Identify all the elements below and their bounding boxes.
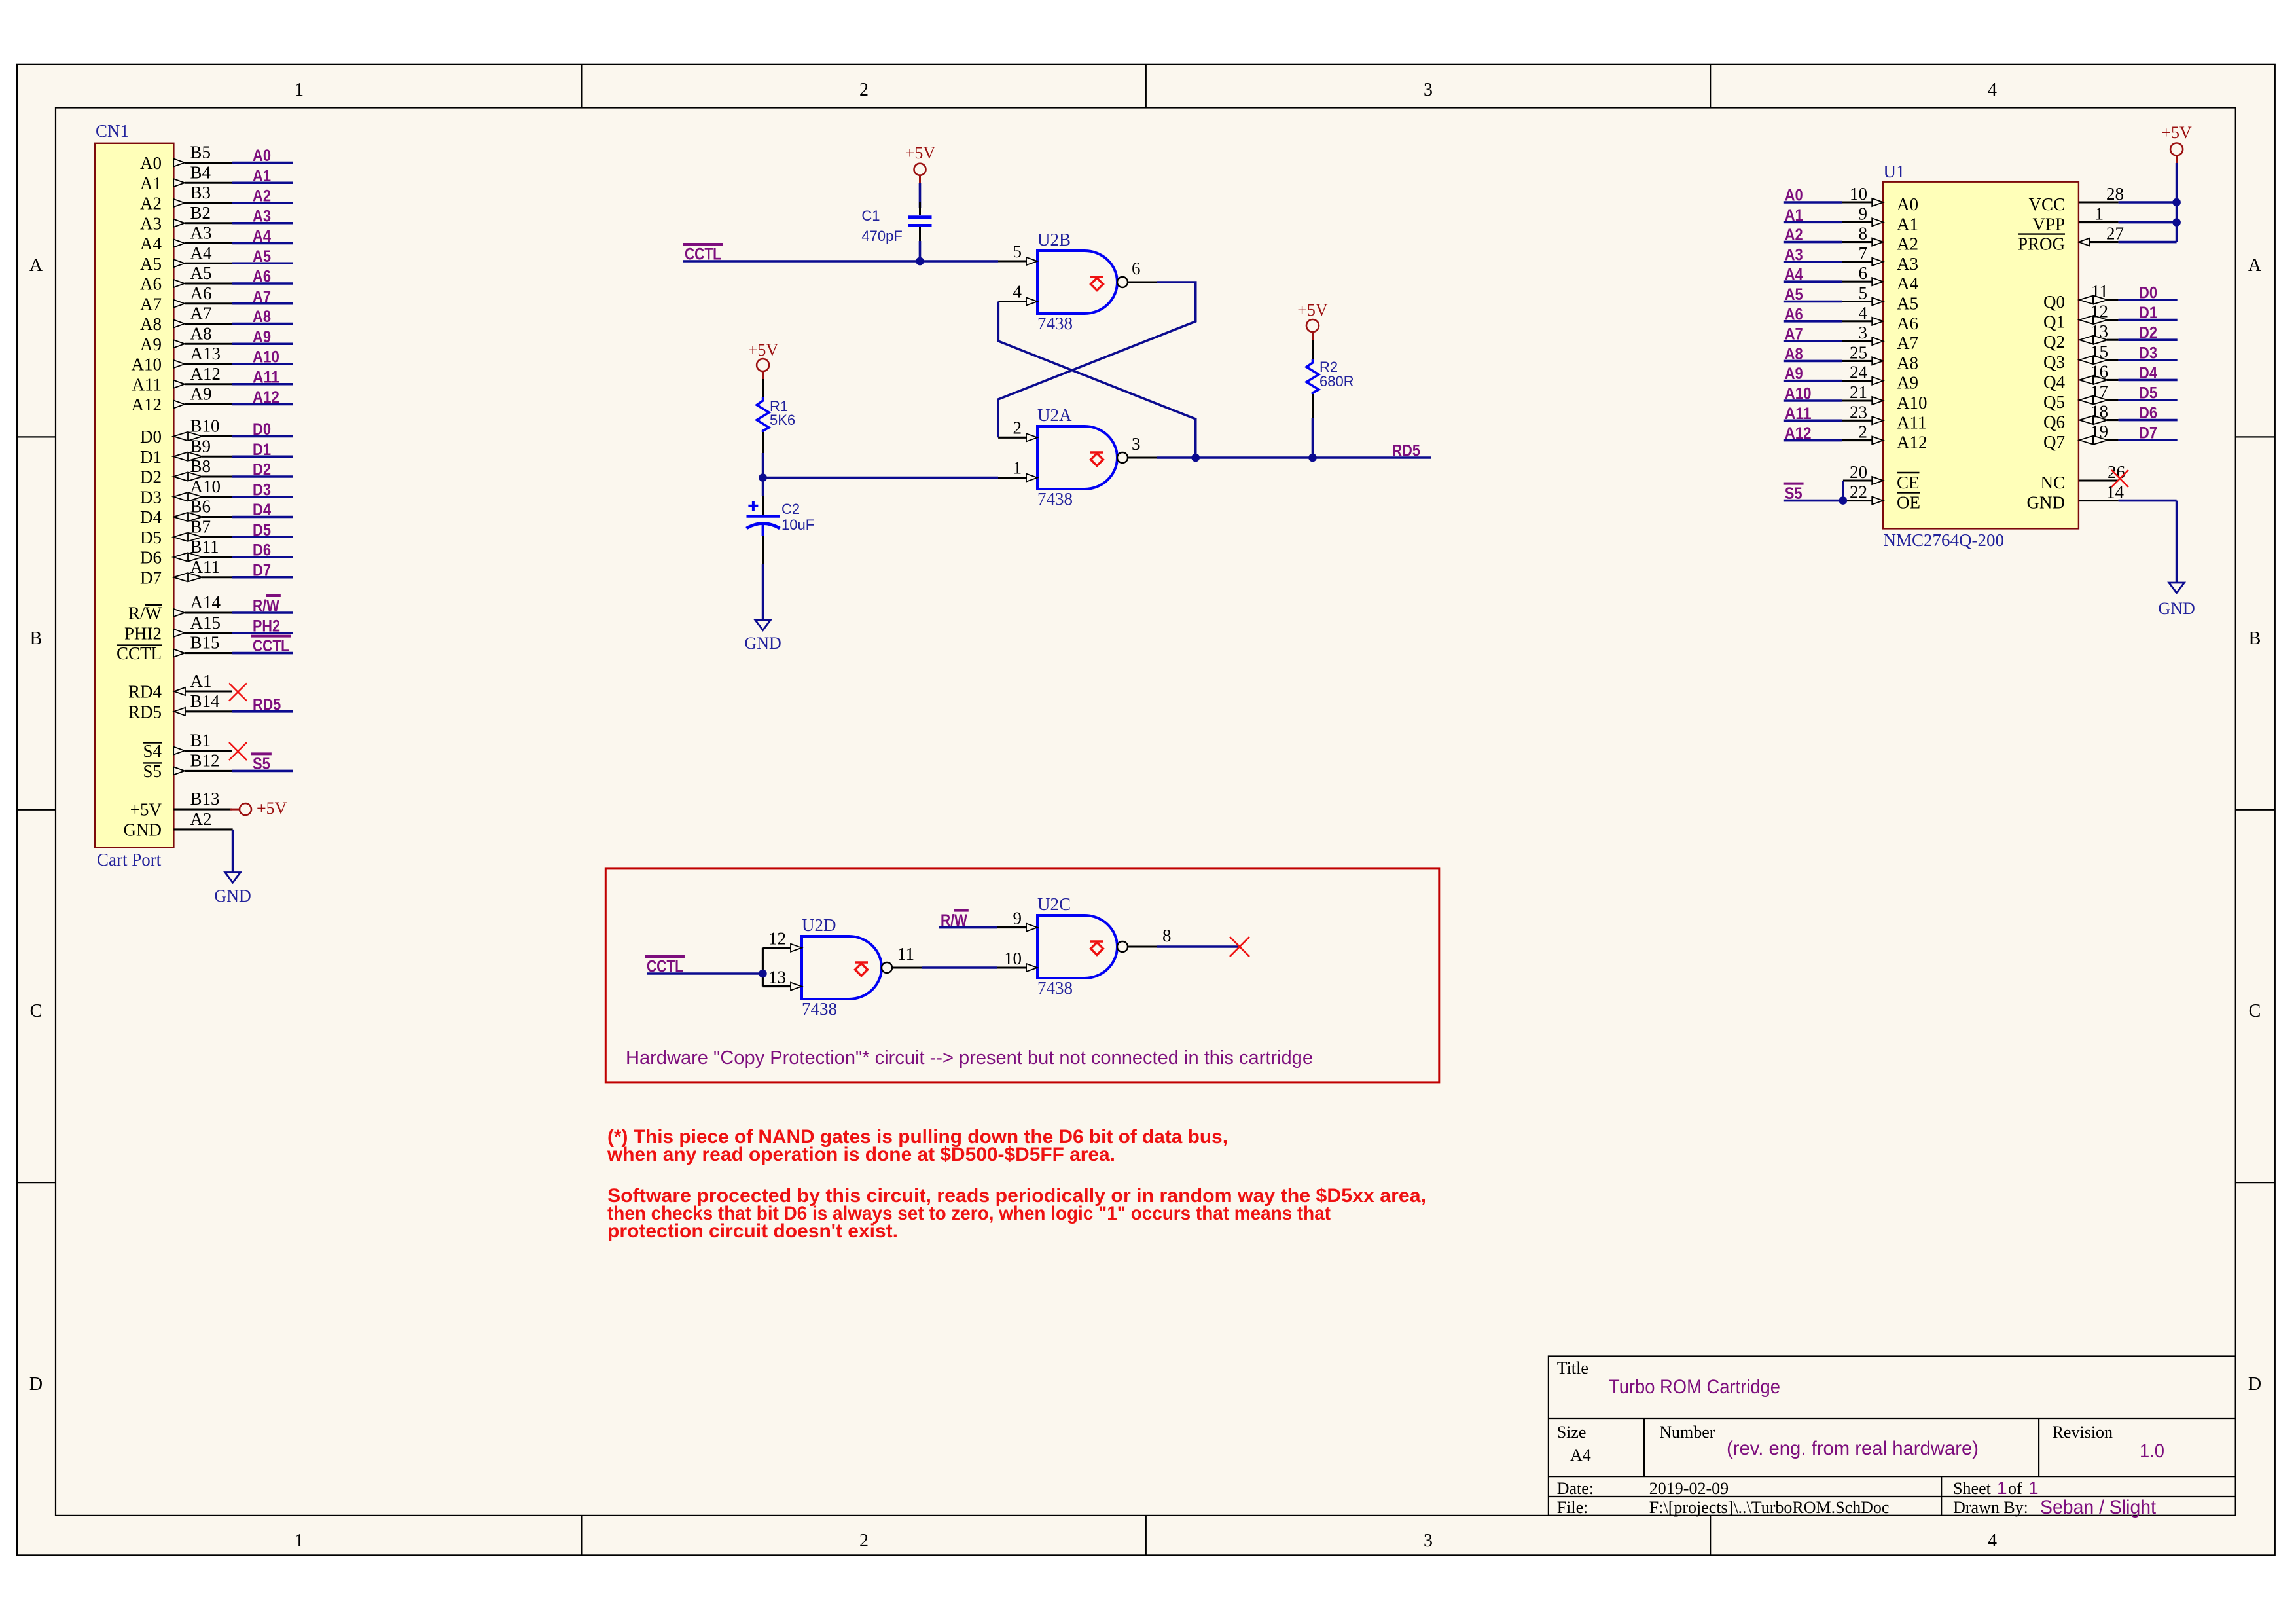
svg-text:8: 8 — [1162, 926, 1172, 945]
junction VPP — [2172, 218, 2181, 227]
svg-text:Q2: Q2 — [2043, 332, 2065, 352]
CN1 pin A4 (A5) — [140, 243, 232, 274]
svg-text:D2: D2 — [253, 461, 271, 479]
svg-text:GND: GND — [2158, 599, 2195, 618]
svg-text:A0: A0 — [1785, 187, 1803, 205]
svg-text:680R: 680R — [1319, 373, 1354, 390]
no-connect X on S4 — [229, 742, 247, 760]
junction S5/CE/OE — [1839, 496, 1848, 505]
svg-text:D5: D5 — [2139, 384, 2157, 403]
svg-text:S4: S4 — [143, 741, 162, 761]
svg-text:A12: A12 — [1897, 433, 1928, 452]
svg-text:CCTL: CCTL — [253, 637, 289, 655]
svg-text:2: 2 — [1859, 422, 1868, 442]
svg-text:U2A: U2A — [1037, 405, 1072, 425]
svg-text:20: 20 — [1850, 462, 1867, 482]
svg-text:A3: A3 — [190, 223, 212, 243]
wire net D5 — [232, 521, 293, 539]
svg-text:22: 22 — [1850, 483, 1867, 502]
CN1 pin B6 (D4) — [140, 497, 232, 528]
svg-text:+5V: +5V — [905, 143, 936, 162]
power +5V above U1 — [2161, 123, 2192, 163]
svg-text:A5: A5 — [190, 263, 212, 283]
svg-text:1: 1 — [1013, 458, 1022, 478]
U2A pin 3 output — [1128, 434, 1157, 458]
U1 pin 26 (NC) — [2040, 462, 2125, 492]
svg-text:PH2: PH2 — [253, 617, 280, 635]
svg-text:D6: D6 — [2139, 404, 2157, 422]
svg-text:Cart Port: Cart Port — [97, 850, 162, 869]
svg-text:D5: D5 — [140, 528, 162, 547]
svg-text:3: 3 — [1424, 80, 1433, 100]
junction R1/C2/pin1 — [759, 473, 767, 482]
net label CCTL (protection) — [645, 957, 685, 976]
wire net D7 — [232, 561, 293, 579]
svg-text:8: 8 — [1859, 224, 1868, 244]
svg-text:14: 14 — [2106, 483, 2125, 502]
U1 pin 23 (A11) — [1842, 402, 1927, 432]
U1 pin 25 (A8) — [1842, 342, 1918, 373]
junction R2/RD5 — [1308, 454, 1317, 462]
wire C2 bottom — [762, 564, 764, 620]
CN1 pin A1 (RD4) — [128, 671, 232, 702]
U2D pin 11 output — [892, 944, 922, 968]
svg-text:A5: A5 — [253, 247, 271, 266]
NAND gate U2B 7438 — [1037, 230, 1128, 333]
connector CN1 body — [95, 143, 173, 848]
svg-text:7438: 7438 — [1037, 978, 1073, 998]
part number NMC2764Q-200 — [1884, 530, 2005, 550]
svg-text:D0: D0 — [253, 420, 271, 439]
designator U1 — [1884, 162, 1905, 181]
wire net A7 — [232, 287, 293, 306]
resistor R1 5K6 — [757, 379, 795, 453]
svg-text:A8: A8 — [190, 323, 212, 343]
svg-text:VCC: VCC — [2028, 194, 2065, 214]
U1 pin 8 (A2) — [1842, 224, 1918, 254]
junction U2A output — [1191, 454, 1200, 462]
wire net D4 — [232, 501, 293, 519]
NAND gate U2D 7438 — [802, 915, 892, 1019]
svg-text:A5: A5 — [1897, 294, 1918, 314]
svg-text:CE: CE — [1897, 473, 1920, 492]
svg-text:Turbo ROM Cartridge: Turbo ROM Cartridge — [1609, 1376, 1780, 1398]
wire net D4 from U1 — [2119, 364, 2178, 382]
svg-text:U2B: U2B — [1037, 230, 1071, 249]
svg-text:NC: NC — [2040, 473, 2065, 492]
svg-text:A3: A3 — [1785, 246, 1803, 264]
U2A pin 1 — [998, 458, 1037, 482]
U2D input tie wire — [762, 948, 764, 987]
svg-text:D4: D4 — [2139, 364, 2157, 382]
U2B pin 4 — [998, 282, 1037, 306]
wire net A3 to U1 — [1784, 246, 1842, 264]
U2B pin 6 output — [1128, 259, 1157, 282]
svg-text:VPP: VPP — [2032, 215, 2065, 234]
svg-text:7438: 7438 — [802, 999, 837, 1019]
U1 pin 15 (Q3) — [2043, 342, 2119, 372]
svg-text:A2: A2 — [253, 187, 271, 206]
ground GND (CN1) — [214, 873, 251, 906]
svg-text:Date:: Date: — [1557, 1479, 1594, 1498]
svg-text:B12: B12 — [190, 750, 220, 770]
svg-text:B4: B4 — [190, 162, 211, 182]
CN1 pin B7 (D5) — [140, 517, 232, 547]
wire net A9 — [232, 328, 293, 346]
svg-text:A9: A9 — [253, 328, 271, 346]
svg-text:A: A — [29, 255, 43, 276]
U1 pin 14 (GND) — [2027, 483, 2125, 513]
U1 pin 21 (A10) — [1842, 382, 1928, 412]
CN1 pin B14 (RD5) — [128, 691, 232, 722]
CN1 pin B2 (A3) — [140, 203, 232, 234]
svg-text:5K6: 5K6 — [770, 412, 795, 428]
svg-text:A11: A11 — [1897, 412, 1927, 432]
svg-text:A4: A4 — [140, 234, 162, 253]
svg-text:Q5: Q5 — [2043, 392, 2065, 412]
no-connect X on U2C output — [1230, 937, 1249, 957]
svg-text:Hardware "Copy Protection"* ci: Hardware "Copy Protection"* circuit --> … — [626, 1048, 1313, 1068]
wire net D7 from U1 — [2119, 424, 2178, 443]
CN1 pin B9 (D1) — [140, 436, 232, 467]
U1 pin 2 (A12) — [1842, 422, 1928, 452]
wire R/W to U2C pin 9 — [939, 926, 997, 929]
svg-text:27: 27 — [2106, 224, 2124, 244]
svg-text:A4: A4 — [1785, 266, 1803, 284]
wire net A6 to U1 — [1784, 305, 1842, 323]
U1 pin 28 (VCC) — [2028, 184, 2124, 214]
no-connect X on NC — [2111, 470, 2128, 487]
svg-text:3: 3 — [1132, 434, 1141, 454]
U1 pin 18 (Q6) — [2043, 402, 2119, 432]
svg-text:CN1: CN1 — [96, 121, 129, 141]
svg-text:A7: A7 — [140, 294, 162, 314]
svg-text:D1: D1 — [140, 447, 162, 467]
CN1 pin A8 (A9) — [140, 323, 232, 354]
svg-text:Title: Title — [1557, 1359, 1588, 1377]
wire net D6 — [232, 541, 293, 560]
svg-text:A6: A6 — [140, 274, 162, 294]
svg-text:24: 24 — [1850, 363, 1868, 382]
wire net A0 to U1 — [1784, 187, 1842, 205]
wire GND down — [2119, 501, 2177, 583]
wire VPP to +5V — [2119, 221, 2177, 224]
svg-text:9: 9 — [1013, 909, 1022, 928]
CN1 pin A9 (A12) — [132, 384, 232, 415]
wire net A8 — [232, 308, 293, 326]
U1 pin 11 (Q0) — [2043, 282, 2119, 312]
svg-text:4: 4 — [1988, 1531, 1997, 1551]
svg-text:9: 9 — [1859, 204, 1868, 223]
svg-text:2: 2 — [859, 80, 869, 100]
svg-text:10: 10 — [1850, 184, 1867, 204]
svg-text:26: 26 — [2108, 462, 2125, 482]
wire net A5 to U1 — [1784, 285, 1842, 304]
svg-text:A9: A9 — [1785, 365, 1803, 383]
svg-text:Revision: Revision — [2053, 1423, 2113, 1442]
svg-text:A11: A11 — [253, 368, 279, 386]
svg-text:B10: B10 — [190, 416, 220, 436]
wire net A12 — [232, 388, 293, 407]
svg-text:D1: D1 — [2139, 304, 2157, 322]
svg-text:1.0: 1.0 — [2140, 1440, 2164, 1462]
capacitor C1 470pF — [861, 202, 931, 244]
wire net RD5 output — [1196, 442, 1431, 460]
U2D pin 13 — [762, 968, 802, 991]
svg-text:D7: D7 — [253, 561, 271, 579]
svg-text:A5: A5 — [140, 254, 162, 274]
wire net D2 — [232, 461, 293, 479]
wire net A11 to U1 — [1784, 405, 1842, 423]
CN1 pin B15 (CCTL) — [117, 633, 232, 664]
svg-text:A0: A0 — [1897, 194, 1918, 214]
wire net A6 — [232, 268, 293, 286]
wire net D0 — [232, 420, 293, 439]
svg-text:Sheet: Sheet — [1953, 1479, 1992, 1498]
svg-text:A12: A12 — [132, 395, 162, 414]
svg-text:Q3: Q3 — [2043, 352, 2065, 372]
CN1 pin A2 (GND) — [124, 809, 232, 840]
U2B pin 5 — [998, 242, 1037, 265]
svg-text:D0: D0 — [2139, 284, 2157, 302]
U1 pin 24 (A9) — [1842, 363, 1918, 393]
U1 pin 10 (A0) — [1842, 184, 1918, 214]
svg-text:B13: B13 — [190, 789, 220, 809]
CN1 pin A15 (PHI2) — [124, 613, 232, 644]
ground GND (C2) — [744, 620, 781, 653]
CN1 pin A13 (A10) — [132, 344, 232, 374]
svg-text:A10: A10 — [1897, 393, 1928, 412]
wire net A2 to U1 — [1784, 226, 1842, 244]
power +5V above C1 — [905, 143, 936, 183]
wire net D6 from U1 — [2119, 404, 2178, 422]
svg-text:A15: A15 — [190, 613, 221, 632]
svg-text:A1: A1 — [1785, 206, 1803, 225]
svg-text:A10: A10 — [132, 355, 162, 374]
svg-text:NMC2764Q-200: NMC2764Q-200 — [1884, 530, 2005, 550]
CN1 pin B5 (A0) — [140, 143, 232, 173]
svg-text:B3: B3 — [190, 183, 211, 202]
svg-text:A3: A3 — [1897, 254, 1918, 274]
svg-text:B11: B11 — [190, 537, 219, 556]
svg-text:File:: File: — [1557, 1498, 1588, 1517]
svg-text:RD4: RD4 — [128, 682, 162, 702]
svg-text:A7: A7 — [253, 287, 271, 306]
svg-text:Q6: Q6 — [2043, 412, 2065, 432]
svg-text:B15: B15 — [190, 633, 220, 653]
wire net A3 — [232, 207, 293, 225]
svg-text:Q0: Q0 — [2043, 292, 2065, 312]
svg-text:+5V: +5V — [1297, 301, 1328, 319]
svg-text:A12: A12 — [190, 364, 221, 384]
svg-text:Seban / Slight: Seban / Slight — [2040, 1497, 2157, 1518]
svg-text:U2D: U2D — [802, 915, 836, 935]
wire net A12 to U1 — [1784, 424, 1842, 443]
U1 pin 9 (A1) — [1842, 204, 1918, 234]
svg-text:A6: A6 — [253, 268, 271, 286]
svg-text:5: 5 — [1013, 242, 1022, 261]
wire U2B pin4 to U2A out — [998, 302, 1195, 458]
red note text block — [607, 1126, 1426, 1242]
svg-text:A6: A6 — [1897, 314, 1918, 333]
junction U2D inputs — [759, 970, 767, 978]
svg-text:A11: A11 — [190, 557, 221, 577]
svg-text:D2: D2 — [140, 467, 162, 487]
net label CCTL (latch input) — [683, 244, 723, 264]
U1 pin 16 (Q4) — [2043, 361, 2119, 392]
svg-text:D: D — [29, 1374, 43, 1395]
svg-text:2019-02-09: 2019-02-09 — [1649, 1479, 1729, 1498]
U1 pin 5 (A5) — [1842, 283, 1918, 314]
wire net A0 — [232, 147, 293, 165]
power +5V above R1 — [748, 340, 779, 379]
svg-text:of: of — [2008, 1479, 2022, 1498]
svg-text:A7: A7 — [1897, 333, 1918, 353]
svg-text:GND: GND — [214, 886, 251, 905]
NAND gate U2C 7438 — [1037, 894, 1128, 998]
IC U1 body — [1883, 182, 2079, 529]
svg-text:21: 21 — [1850, 382, 1867, 402]
U1 pin 20 (CE) — [1843, 462, 1920, 492]
svg-text:S5: S5 — [1785, 484, 1803, 503]
svg-text:+5V: +5V — [257, 799, 287, 818]
svg-text:7438: 7438 — [1037, 314, 1073, 333]
U1 pin 22 (OE) — [1843, 483, 1920, 513]
svg-text:470pF: 470pF — [861, 228, 902, 244]
CN1 pin B3 (A2) — [140, 183, 232, 213]
svg-text:A6: A6 — [1785, 305, 1803, 323]
svg-text:1: 1 — [1997, 1478, 2007, 1498]
svg-text:C: C — [2249, 1001, 2261, 1021]
svg-text:S5: S5 — [143, 761, 162, 781]
wire net A10 to U1 — [1784, 385, 1842, 403]
CN1 pin A10 (D3) — [140, 477, 232, 507]
wire net A1 to U1 — [1784, 206, 1842, 225]
svg-text:23: 23 — [1850, 402, 1867, 422]
copy-protection enclosure box — [605, 869, 1439, 1082]
svg-text:PROG: PROG — [2018, 234, 2065, 254]
svg-text:+5V: +5V — [2161, 123, 2192, 142]
wire C1 to CCTL — [919, 241, 922, 261]
svg-text:C: C — [30, 1001, 43, 1021]
wire net S5 — [232, 754, 293, 773]
svg-text:13: 13 — [2090, 321, 2108, 341]
svg-text:A: A — [2248, 255, 2262, 276]
svg-text:A4: A4 — [190, 243, 212, 263]
wire net R/W — [232, 596, 293, 615]
U1 pin 19 (Q7) — [2043, 422, 2119, 452]
svg-text:Size: Size — [1557, 1423, 1587, 1442]
svg-text:RD5: RD5 — [1392, 442, 1420, 460]
wire net A5 — [232, 247, 293, 266]
svg-text:A1: A1 — [1897, 214, 1918, 234]
label Cart Port — [97, 850, 162, 869]
svg-text:7438: 7438 — [1037, 489, 1073, 509]
svg-text:4: 4 — [1988, 80, 1997, 100]
svg-text:3: 3 — [1859, 323, 1868, 342]
svg-text:OE: OE — [1897, 493, 1920, 513]
svg-text:A10: A10 — [1785, 385, 1812, 403]
U2A pin 2 — [998, 418, 1037, 441]
CN1 pin B11 (D6) — [140, 537, 232, 568]
NAND gate U2A 7438 — [1037, 405, 1128, 509]
svg-text:28: 28 — [2106, 184, 2124, 204]
svg-text:4: 4 — [1013, 282, 1022, 302]
svg-text:RD5: RD5 — [253, 695, 281, 714]
svg-text:5: 5 — [1859, 283, 1868, 303]
svg-text:Number: Number — [1659, 1423, 1715, 1442]
svg-text:A4: A4 — [1897, 274, 1918, 293]
svg-text:U1: U1 — [1884, 162, 1905, 181]
svg-text:R/W: R/W — [128, 604, 162, 623]
U1 pin 6 (A4) — [1842, 263, 1919, 293]
svg-text:A2: A2 — [1897, 234, 1918, 254]
wire net A2 — [232, 187, 293, 206]
wire net RD5 — [232, 695, 293, 714]
svg-text:B: B — [30, 629, 43, 649]
CN1 pin B8 (D2) — [140, 456, 232, 487]
svg-text:4: 4 — [1859, 303, 1868, 323]
svg-text:GND: GND — [744, 634, 781, 653]
svg-text:GND: GND — [2027, 493, 2066, 513]
U2D pin 12 — [762, 929, 802, 952]
svg-text:7: 7 — [1859, 244, 1868, 263]
wire net PH2 — [232, 617, 293, 635]
svg-text:A2: A2 — [190, 809, 212, 829]
svg-text:1: 1 — [2028, 1478, 2039, 1498]
svg-text:6: 6 — [1132, 259, 1141, 278]
wire VCC to +5V — [2119, 201, 2177, 204]
wire CCTL to U2B pin 5 — [683, 260, 998, 263]
wire net A10 — [232, 348, 293, 367]
svg-text:A12: A12 — [253, 388, 279, 407]
svg-text:25: 25 — [1850, 342, 1867, 362]
svg-text:Q4: Q4 — [2043, 372, 2065, 392]
svg-text:17: 17 — [2090, 382, 2108, 401]
svg-text:1: 1 — [295, 1531, 304, 1551]
svg-text:B2: B2 — [190, 203, 211, 223]
svg-text:15: 15 — [2090, 342, 2108, 361]
U1 pin 3 (A7) — [1842, 323, 1918, 353]
CN1 pin A5 (A6) — [140, 263, 232, 294]
svg-text:A12: A12 — [1785, 424, 1812, 443]
svg-text:B6: B6 — [190, 497, 211, 517]
svg-text:D3: D3 — [2139, 344, 2157, 362]
svg-text:6: 6 — [1859, 263, 1868, 283]
wire net A4 to U1 — [1784, 266, 1842, 284]
svg-text:D2: D2 — [2139, 324, 2157, 342]
svg-text:B14: B14 — [190, 691, 221, 711]
svg-text:(rev. eng. from real hardware): (rev. eng. from real hardware) — [1727, 1438, 1979, 1459]
wire net D0 from U1 — [2119, 284, 2178, 302]
svg-text:GND: GND — [124, 820, 162, 839]
svg-text:Q7: Q7 — [2043, 432, 2065, 452]
CN1 pin A11 (D7) — [140, 557, 232, 588]
svg-text:B7: B7 — [190, 517, 211, 536]
svg-text:2: 2 — [1013, 418, 1022, 437]
wire net A8 to U1 — [1784, 345, 1842, 363]
wire net A9 to U1 — [1784, 365, 1842, 383]
wire net D3 — [232, 481, 293, 499]
resistor R2 680R — [1306, 340, 1354, 418]
net label R/W (protection) — [941, 911, 969, 930]
U1 pin 7 (A3) — [1842, 244, 1918, 274]
wire net A7 to U1 — [1784, 325, 1842, 344]
U1 pin 4 (A6) — [1842, 303, 1918, 333]
svg-text:Q1: Q1 — [2043, 312, 2065, 332]
svg-text:D4: D4 — [140, 507, 162, 527]
svg-text:when any read operation is don: when any read operation is done at $D500… — [607, 1144, 1115, 1165]
